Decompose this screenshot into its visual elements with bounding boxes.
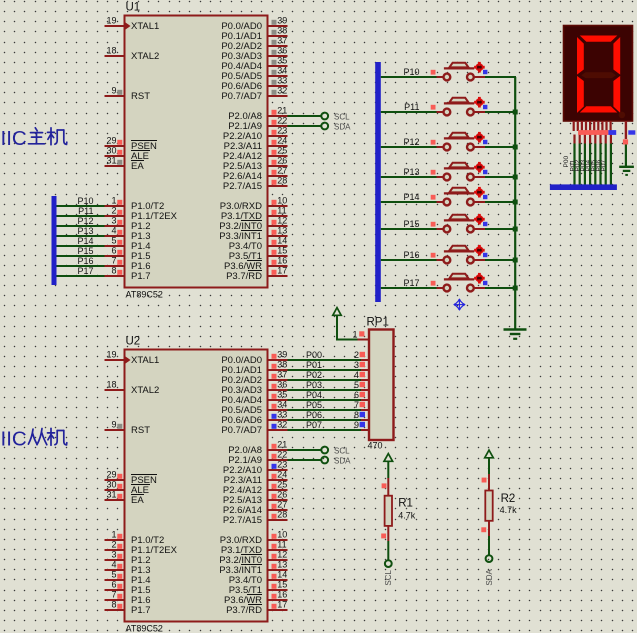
svg-text:P2.7/A15: P2.7/A15 bbox=[223, 515, 262, 526]
svg-text:17: 17 bbox=[277, 266, 287, 276]
svg-text:9: 9 bbox=[111, 86, 116, 96]
ground (display common) bbox=[619, 167, 634, 175]
pin 26 P2.5/A13 of U1 bbox=[267, 165, 288, 167]
svg-text:17: 17 bbox=[277, 600, 287, 610]
svg-text:36: 36 bbox=[277, 46, 287, 56]
display pin stub 2 bbox=[577, 121, 579, 131]
pin 34 P0.5/AD5 of U2 bbox=[267, 409, 288, 411]
svg-text:P00: P00 bbox=[306, 350, 322, 360]
svg-text:16: 16 bbox=[277, 256, 287, 266]
svg-text:6: 6 bbox=[354, 390, 359, 400]
svg-text:23: 23 bbox=[277, 126, 287, 136]
svg-text:11: 11 bbox=[277, 206, 286, 216]
svg-text:33: 33 bbox=[277, 76, 287, 86]
pin 7 P1.6 of U1 bbox=[105, 265, 126, 267]
display pin wire 5 bbox=[594, 135, 596, 144]
pin 6 P1.5 of U2 bbox=[105, 589, 126, 591]
pin 1 P1.0/T2 of U1 bbox=[105, 205, 126, 207]
display pin state square (blue) bbox=[608, 130, 616, 135]
svg-text:25: 25 bbox=[277, 480, 287, 490]
svg-text:6: 6 bbox=[111, 246, 116, 256]
pin 4 P1.3 of U2 bbox=[105, 569, 126, 571]
svg-text:470: 470 bbox=[368, 441, 383, 451]
svg-text:P14: P14 bbox=[77, 236, 93, 246]
display pin stub 7 bbox=[597, 121, 599, 131]
pin 19 XTAL1 of U1 bbox=[105, 25, 126, 27]
svg-text:38: 38 bbox=[277, 360, 287, 370]
pin 25 P2.4/A12 of U1 bbox=[267, 155, 288, 157]
svg-text:4.7k: 4.7k bbox=[500, 505, 518, 515]
svg-text:P16: P16 bbox=[403, 250, 419, 260]
pin 4 P1.3 of U1 bbox=[105, 235, 126, 237]
segment C (lit) bbox=[613, 76, 620, 113]
pin 33 P0.6/AD6 of U1 bbox=[267, 85, 288, 87]
push button P11 bbox=[381, 97, 518, 116]
svg-text:P12: P12 bbox=[77, 216, 93, 226]
push button P14 bbox=[381, 187, 518, 206]
svg-text:32: 32 bbox=[277, 420, 287, 430]
pin 37 P0.2/AD2 of U2 bbox=[267, 379, 288, 381]
terminal SCL (U2) bbox=[321, 447, 328, 454]
svg-text:12: 12 bbox=[277, 550, 287, 560]
pin 2 P1.1/T2EX of U1 bbox=[105, 215, 126, 217]
pin 9 RST of U2 bbox=[105, 429, 126, 431]
display pin stub 10 bbox=[609, 121, 611, 131]
svg-text:3: 3 bbox=[111, 216, 116, 226]
svg-text:P03: P03 bbox=[306, 380, 322, 390]
resistor R2 bbox=[481, 474, 492, 536]
svg-text:35: 35 bbox=[277, 56, 287, 66]
svg-text:P1.7: P1.7 bbox=[131, 271, 151, 282]
terminal SCL (U1) bbox=[321, 113, 328, 120]
wire P15 from bus to U1 P1.5 bbox=[57, 255, 105, 257]
resistor pack RP1 body bbox=[369, 330, 394, 441]
svg-text:P07: P07 bbox=[601, 160, 608, 172]
svg-text:7: 7 bbox=[111, 590, 116, 600]
svg-text:37: 37 bbox=[277, 36, 287, 46]
7-segment display body bbox=[564, 26, 633, 122]
origin marker bbox=[453, 298, 465, 310]
microcontroller U2 AT89C52 body bbox=[125, 350, 268, 622]
svg-text:AT89C52: AT89C52 bbox=[126, 624, 163, 633]
svg-text:11: 11 bbox=[277, 540, 286, 550]
pin 39 P0.0/AD0 of U1 bbox=[267, 25, 288, 27]
svg-text:P13: P13 bbox=[403, 167, 419, 177]
svg-text:18: 18 bbox=[106, 380, 116, 390]
pin 9 RST of U1 bbox=[105, 95, 126, 97]
svg-text:RST: RST bbox=[131, 91, 150, 102]
display pin wire 6 bbox=[599, 135, 601, 144]
pin 30 ALE of U1 bbox=[105, 155, 126, 157]
svg-text:P06: P06 bbox=[306, 410, 322, 420]
svg-text:21: 21 bbox=[277, 106, 287, 116]
svg-text:XTAL2: XTAL2 bbox=[131, 385, 159, 396]
wire P05 from U2 P0.5 to RP1 pin 7 bbox=[288, 409, 362, 411]
svg-text:31: 31 bbox=[106, 156, 116, 166]
pin 34 P0.5/AD5 of U1 bbox=[267, 75, 288, 77]
svg-text:8: 8 bbox=[354, 410, 359, 420]
pin 10 P3.0/RXD of U1 bbox=[267, 205, 288, 207]
pin 36 P0.3/AD3 of U2 bbox=[267, 389, 288, 391]
pin 21 P2.0/A8 of U2 bbox=[267, 449, 288, 451]
ground (buttons common) bbox=[504, 330, 527, 339]
svg-text:XTAL1: XTAL1 bbox=[131, 355, 159, 366]
svg-text:10: 10 bbox=[277, 530, 287, 540]
svg-text:XTAL2: XTAL2 bbox=[131, 51, 159, 62]
svg-text:4.7k: 4.7k bbox=[398, 511, 416, 521]
pin 14 P3.4/T0 of U1 bbox=[267, 245, 288, 247]
pin 26 P2.5/A13 of U2 bbox=[267, 499, 288, 501]
display pin stub 5 bbox=[589, 121, 591, 131]
svg-text:28: 28 bbox=[277, 510, 287, 520]
push button P12 bbox=[381, 132, 518, 151]
svg-text:P02: P02 bbox=[306, 370, 322, 380]
pin 22 P2.1/A9 of U2 bbox=[267, 459, 288, 461]
pin 35 P0.4/AD4 of U2 bbox=[267, 399, 288, 401]
display pin stub 1 bbox=[573, 121, 575, 131]
display pins state bar (red) bbox=[578, 130, 608, 135]
wire P13 from bus to U1 P1.3 bbox=[57, 235, 105, 237]
wire P03 from U2 P0.3 to RP1 pin 5 bbox=[288, 389, 362, 391]
svg-text:31: 31 bbox=[106, 490, 116, 500]
wire P17 from bus to U1 P1.7 bbox=[57, 275, 105, 277]
display pin wire 4 bbox=[589, 135, 591, 144]
svg-text:AT89C52: AT89C52 bbox=[126, 290, 163, 300]
svg-text:39: 39 bbox=[277, 16, 287, 26]
svg-text:3: 3 bbox=[354, 360, 359, 370]
svg-text:3: 3 bbox=[111, 550, 116, 560]
svg-text:7: 7 bbox=[111, 256, 116, 266]
svg-text:SCL: SCL bbox=[334, 446, 350, 455]
svg-text:13: 13 bbox=[277, 560, 287, 570]
pin 37 P0.2/AD2 of U1 bbox=[267, 45, 288, 47]
pin 23 P2.2/A10 of U2 bbox=[267, 469, 288, 471]
pin 3 P1.2 of U1 bbox=[105, 225, 126, 227]
svg-text:39: 39 bbox=[277, 350, 287, 360]
wire U1 P2 to terminal SDA bbox=[288, 125, 322, 127]
svg-text:27: 27 bbox=[277, 166, 287, 176]
pin 32 P0.7/AD7 of U2 bbox=[267, 429, 288, 431]
terminal SDA (bottom) bbox=[486, 555, 493, 562]
display common pin bbox=[625, 121, 627, 139]
pin 31 EA of U2 bbox=[105, 499, 126, 501]
svg-text:P11: P11 bbox=[78, 206, 93, 216]
wire P10 from bus to U1 P1.0 bbox=[57, 205, 105, 207]
segment B (lit) bbox=[613, 37, 620, 75]
segment E (lit) bbox=[577, 76, 584, 113]
pin 28 P2.7/A15 of U2 bbox=[267, 519, 288, 521]
svg-text:14: 14 bbox=[277, 236, 287, 246]
wire R1 to SCL terminal bbox=[387, 541, 389, 560]
svg-text:P16: P16 bbox=[77, 256, 93, 266]
svg-text:38: 38 bbox=[277, 26, 287, 36]
pin 3 P1.2 of U2 bbox=[105, 559, 126, 561]
display pin wire 3 bbox=[584, 135, 586, 144]
display pin stub 9 bbox=[605, 121, 607, 131]
microcontroller U1 AT89C52 body bbox=[125, 16, 268, 288]
svg-text:24: 24 bbox=[277, 470, 287, 480]
display pin stub 6 bbox=[593, 121, 595, 131]
svg-text:13: 13 bbox=[277, 226, 287, 236]
wire P01 from U2 P0.1 to RP1 pin 3 bbox=[288, 369, 362, 371]
wire buttons common (vertical) bbox=[514, 77, 516, 329]
display pin wire 8 bbox=[610, 135, 612, 144]
pin 16 P3.6/WR of U1 bbox=[267, 265, 288, 267]
display pin stub 3 bbox=[581, 121, 583, 131]
svg-text:15: 15 bbox=[277, 580, 287, 590]
svg-text:27: 27 bbox=[277, 500, 287, 510]
svg-text:P04: P04 bbox=[306, 390, 322, 400]
wire P16 from bus to U1 P1.6 bbox=[57, 265, 105, 267]
svg-text:P1.7: P1.7 bbox=[131, 605, 151, 616]
svg-text:P10: P10 bbox=[77, 196, 93, 206]
pin 22 P2.1/A9 of U1 bbox=[267, 125, 288, 127]
svg-text:8: 8 bbox=[111, 600, 116, 610]
pin 2 of RP1 bbox=[361, 359, 369, 361]
pin 11 P3.1/TXD of U2 bbox=[267, 549, 288, 551]
pin 29 PSEN of U1 bbox=[105, 145, 126, 147]
svg-text:2: 2 bbox=[111, 206, 116, 216]
svg-text:28: 28 bbox=[277, 176, 287, 186]
svg-text:P15: P15 bbox=[403, 219, 419, 229]
svg-text:29: 29 bbox=[106, 136, 116, 146]
pin 7 P1.6 of U2 bbox=[105, 599, 126, 601]
svg-text:U2: U2 bbox=[126, 336, 141, 348]
wire U2 P2 to terminal SDA bbox=[288, 459, 322, 461]
svg-text:IIC: IIC bbox=[1, 127, 27, 150]
pin 13 P3.3/INT1 of U2 bbox=[267, 569, 288, 571]
power arrow (R2) bbox=[485, 450, 494, 458]
svg-text:5: 5 bbox=[354, 380, 359, 390]
svg-text:P0.7/AD7: P0.7/AD7 bbox=[221, 425, 262, 436]
svg-text:4: 4 bbox=[111, 226, 116, 236]
svg-text:16: 16 bbox=[277, 590, 287, 600]
svg-text:24: 24 bbox=[277, 136, 287, 146]
svg-text:8: 8 bbox=[111, 266, 116, 276]
svg-text:R2: R2 bbox=[501, 493, 516, 505]
svg-text:RP1: RP1 bbox=[367, 317, 389, 329]
terminal SCL (bottom) bbox=[385, 560, 392, 567]
svg-text:P05: P05 bbox=[306, 400, 322, 410]
svg-text:7: 7 bbox=[354, 400, 359, 410]
svg-text:4: 4 bbox=[354, 370, 359, 380]
pin 6 P1.5 of U1 bbox=[105, 255, 126, 257]
resistor R1 bbox=[381, 478, 392, 541]
svg-text:9: 9 bbox=[111, 420, 116, 430]
display pin wire 7 bbox=[605, 135, 607, 144]
pin 14 P3.4/T0 of U2 bbox=[267, 579, 288, 581]
pin 12 P3.2/INT0 of U1 bbox=[267, 225, 288, 227]
svg-text:SCL: SCL bbox=[384, 569, 393, 585]
svg-text:35: 35 bbox=[277, 390, 287, 400]
svg-text:9: 9 bbox=[354, 420, 359, 430]
svg-text:SCL: SCL bbox=[334, 112, 350, 121]
svg-text:26: 26 bbox=[277, 156, 287, 166]
push button P10 bbox=[381, 62, 516, 81]
svg-text:32: 32 bbox=[277, 86, 287, 96]
svg-text:36: 36 bbox=[277, 380, 287, 390]
svg-text:26: 26 bbox=[277, 490, 287, 500]
wire P00 from U2 P0.0 to RP1 pin 2 bbox=[288, 359, 362, 361]
svg-text:12: 12 bbox=[277, 216, 287, 226]
decimal point (unlit) bbox=[619, 112, 626, 119]
svg-text:IIC: IIC bbox=[1, 428, 27, 451]
pin 8 P1.7 of U1 bbox=[105, 275, 126, 277]
pin 21 P2.0/A8 of U1 bbox=[267, 115, 288, 117]
pin 29 PSEN of U2 bbox=[105, 479, 126, 481]
svg-text:P15: P15 bbox=[77, 246, 93, 256]
pin 35 P0.4/AD4 of U1 bbox=[267, 65, 288, 67]
svg-text:XTAL1: XTAL1 bbox=[131, 21, 159, 32]
svg-text:30: 30 bbox=[106, 480, 116, 490]
svg-text:29: 29 bbox=[106, 470, 116, 480]
svg-text:15: 15 bbox=[277, 246, 287, 256]
push button P16 bbox=[381, 245, 518, 264]
pin 5 P1.4 of U2 bbox=[105, 579, 126, 581]
terminal SDA (U1) bbox=[321, 123, 328, 130]
pin 23 P2.2/A10 of U1 bbox=[267, 135, 288, 137]
display pin stub 4 bbox=[585, 121, 587, 131]
svg-text:EA: EA bbox=[131, 161, 144, 172]
display pin wire 1 bbox=[573, 135, 575, 144]
wire P02 from U2 P0.2 to RP1 pin 4 bbox=[288, 379, 362, 381]
pin 2 P1.1/T2EX of U2 bbox=[105, 549, 126, 551]
segment G (unlit) bbox=[581, 72, 616, 78]
segment F (lit) bbox=[577, 37, 584, 75]
svg-text:SDA: SDA bbox=[485, 568, 494, 585]
pin 4 of RP1 bbox=[361, 379, 369, 381]
svg-text:37: 37 bbox=[277, 370, 287, 380]
pin 19 XTAL1 of U2 bbox=[105, 359, 126, 361]
power arrow (R1) bbox=[384, 454, 393, 462]
pin 31 EA of U1 bbox=[105, 165, 126, 167]
pin 30 ALE of U2 bbox=[105, 489, 126, 491]
svg-text:22: 22 bbox=[277, 116, 287, 126]
pin 17 P3.7/RD of U1 bbox=[267, 275, 288, 277]
svg-text:4: 4 bbox=[111, 560, 116, 570]
pin 18 XTAL2 of U1 bbox=[105, 55, 126, 57]
svg-text:R1: R1 bbox=[398, 498, 413, 510]
wire P07 from U2 P0.7 to RP1 pin 9 bbox=[288, 429, 362, 431]
svg-text:P13: P13 bbox=[77, 226, 93, 236]
pin 24 P2.3/A11 of U1 bbox=[267, 145, 288, 147]
pin 3 of RP1 bbox=[361, 369, 369, 371]
svg-text:P07: P07 bbox=[306, 420, 322, 430]
svg-text:P0.7/AD7: P0.7/AD7 bbox=[221, 91, 262, 102]
state square (blue, right) bbox=[628, 130, 635, 134]
svg-text:34: 34 bbox=[277, 66, 287, 76]
pin 7 of RP1 bbox=[361, 409, 369, 411]
svg-text:P10: P10 bbox=[403, 67, 419, 77]
pin 15 P3.5/T1 of U2 bbox=[267, 589, 288, 591]
terminal SDA (U2) bbox=[321, 457, 328, 464]
svg-text:19: 19 bbox=[106, 350, 116, 360]
pin 1 P1.0/T2 of U2 bbox=[105, 539, 126, 541]
display pin wire 2 bbox=[579, 135, 581, 144]
svg-text:P01: P01 bbox=[306, 360, 322, 370]
svg-text:SDA: SDA bbox=[334, 456, 351, 465]
svg-text:18: 18 bbox=[106, 46, 116, 56]
wire P12 from bus to U1 P1.2 bbox=[57, 225, 105, 227]
segment A (lit) bbox=[580, 36, 618, 42]
pin 36 P0.3/AD3 of U1 bbox=[267, 55, 288, 57]
svg-text:14: 14 bbox=[277, 570, 287, 580]
wire R2 to SDA terminal bbox=[488, 536, 490, 555]
svg-text:33: 33 bbox=[277, 410, 287, 420]
pin 10 P3.0/RXD of U2 bbox=[267, 539, 288, 541]
bus (buttons left) bbox=[375, 62, 381, 302]
svg-text:P17: P17 bbox=[77, 266, 93, 276]
pin 11 P3.1/TXD of U1 bbox=[267, 215, 288, 217]
pin 6 of RP1 bbox=[361, 399, 369, 401]
pin 18 XTAL2 of U2 bbox=[105, 389, 126, 391]
svg-text:P11: P11 bbox=[404, 102, 419, 112]
svg-text:6: 6 bbox=[111, 580, 116, 590]
pin 8 P1.7 of U2 bbox=[105, 609, 126, 611]
svg-text:P2.7/A15: P2.7/A15 bbox=[223, 181, 262, 192]
pin 8 of RP1 bbox=[361, 419, 369, 421]
pin 17 P3.7/RD of U2 bbox=[267, 609, 288, 611]
pin 9 of RP1 bbox=[361, 429, 369, 431]
pin 32 P0.7/AD7 of U1 bbox=[267, 95, 288, 97]
pin 16 P3.6/WR of U2 bbox=[267, 599, 288, 601]
pin 27 P2.6/A14 of U2 bbox=[267, 509, 288, 511]
pin 15 P3.5/T1 of U1 bbox=[267, 255, 288, 257]
svg-text:23: 23 bbox=[277, 460, 287, 470]
push button P15 bbox=[381, 214, 518, 233]
svg-text:22: 22 bbox=[277, 450, 287, 460]
pin 25 P2.4/A12 of U2 bbox=[267, 489, 288, 491]
segment D (lit) bbox=[580, 106, 618, 112]
wire P11 from bus to U1 P1.1 bbox=[57, 215, 105, 217]
svg-text:2: 2 bbox=[111, 540, 116, 550]
pin 24 P2.3/A11 of U2 bbox=[267, 479, 288, 481]
pin 39 P0.0/AD0 of U2 bbox=[267, 359, 288, 361]
svg-text:P12: P12 bbox=[403, 137, 419, 147]
svg-text:P3.7/RD: P3.7/RD bbox=[226, 271, 262, 282]
pin 28 P2.7/A15 of U1 bbox=[267, 185, 288, 187]
svg-text:P17: P17 bbox=[403, 278, 419, 288]
svg-text:25: 25 bbox=[277, 146, 287, 156]
svg-text:5: 5 bbox=[111, 570, 116, 580]
pin 38 P0.1/AD1 of U1 bbox=[267, 35, 288, 37]
svg-text:2: 2 bbox=[354, 350, 359, 360]
pin 1 of RP1 bbox=[358, 339, 370, 341]
svg-text:P14: P14 bbox=[403, 192, 419, 202]
pin 5 P1.4 of U1 bbox=[105, 245, 126, 247]
svg-text:19: 19 bbox=[106, 16, 116, 26]
svg-text:30: 30 bbox=[106, 146, 116, 156]
pin 33 P0.6/AD6 of U2 bbox=[267, 419, 288, 421]
svg-text:EA: EA bbox=[131, 495, 144, 506]
wire to RP1 pin 1 bbox=[336, 339, 358, 341]
svg-text:10: 10 bbox=[277, 196, 287, 206]
pin 38 P0.1/AD1 of U2 bbox=[267, 369, 288, 371]
svg-text:1: 1 bbox=[111, 196, 116, 206]
svg-text:21: 21 bbox=[277, 440, 287, 450]
pin 12 P3.2/INT0 of U2 bbox=[267, 559, 288, 561]
wire P04 from U2 P0.4 to RP1 pin 6 bbox=[288, 399, 362, 401]
svg-text:1: 1 bbox=[111, 530, 116, 540]
pin 5 of RP1 bbox=[361, 389, 369, 391]
wire P06 from U2 P0.6 to RP1 pin 8 bbox=[288, 419, 362, 421]
svg-text:34: 34 bbox=[277, 400, 287, 410]
wire U1 P2 to terminal SCL bbox=[288, 115, 322, 117]
svg-text:SDA: SDA bbox=[334, 122, 351, 131]
svg-text:5: 5 bbox=[111, 236, 116, 246]
wire P14 from bus to U1 P1.4 bbox=[57, 245, 105, 247]
push button P13 bbox=[381, 162, 518, 181]
